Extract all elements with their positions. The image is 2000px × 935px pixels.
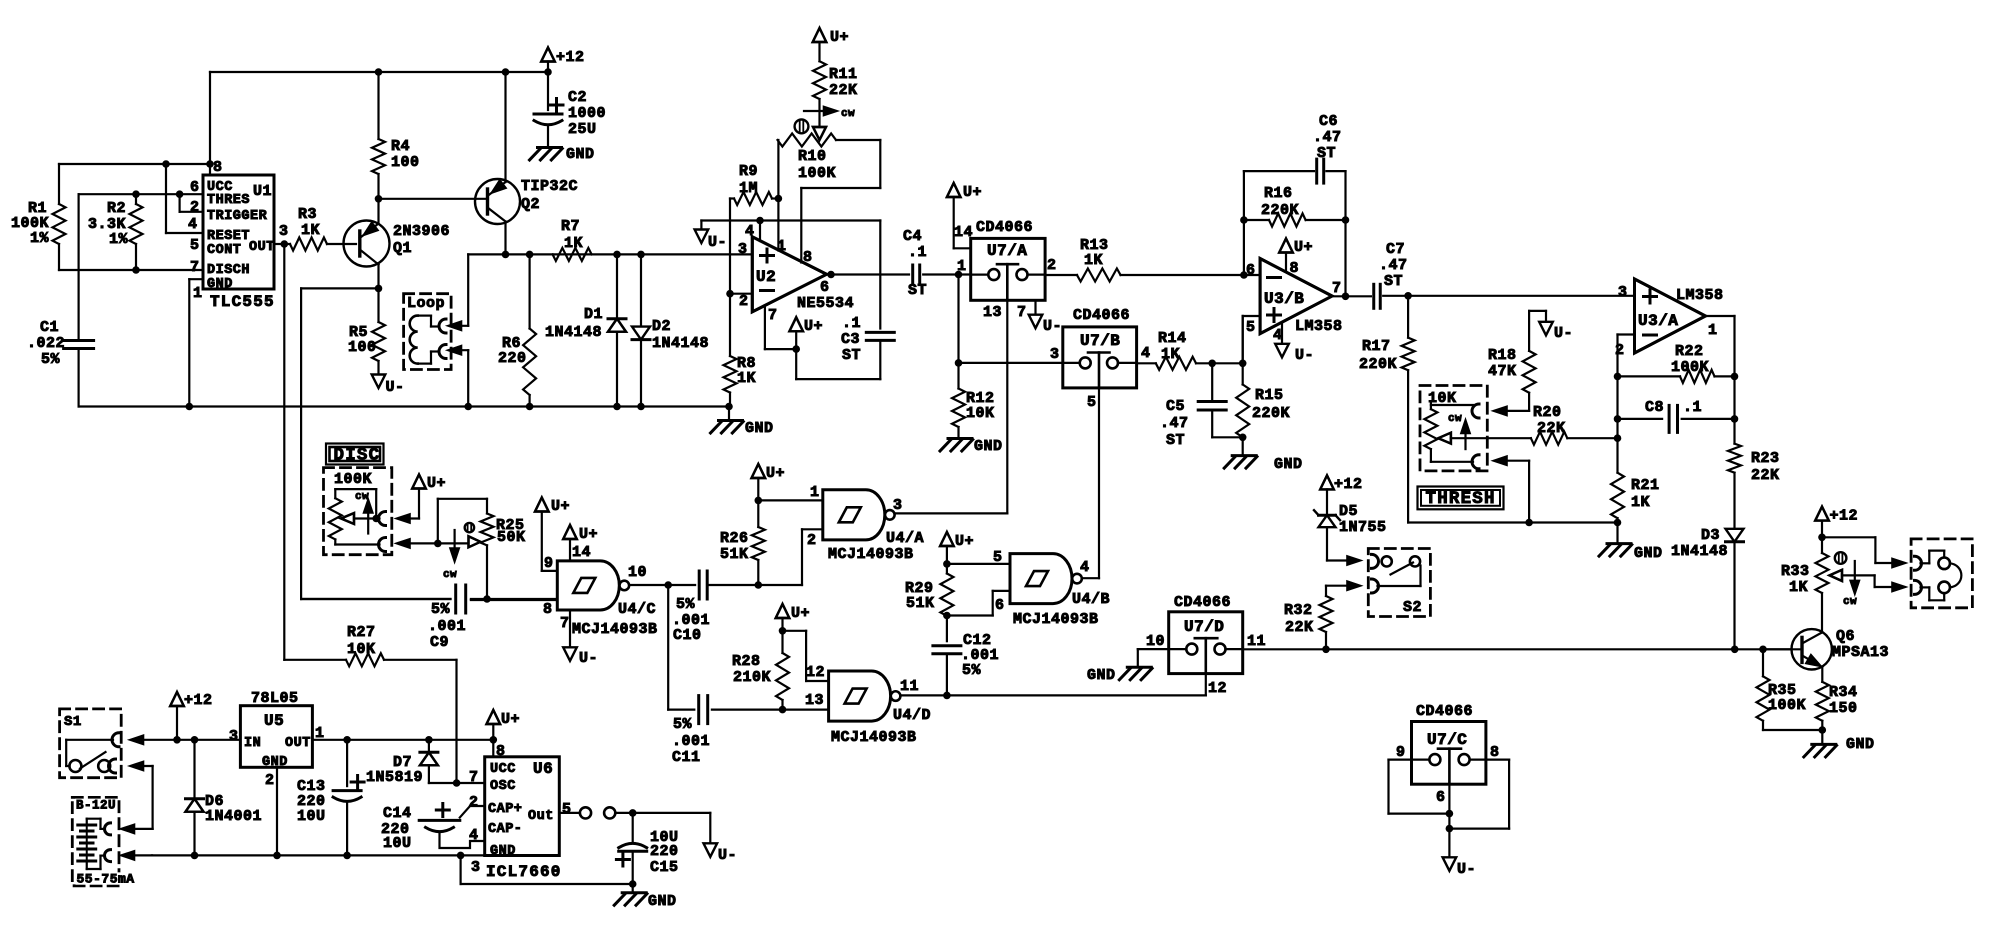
- svg-text:5%: 5%: [431, 601, 451, 618]
- svg-text:5: 5: [1246, 319, 1256, 336]
- svg-text:.47: .47: [1313, 129, 1342, 146]
- svg-text:51K: 51K: [906, 595, 935, 612]
- svg-text:2: 2: [739, 293, 749, 310]
- svg-text:+12: +12: [1334, 476, 1363, 493]
- svg-text:R23: R23: [1751, 450, 1780, 467]
- svg-text:cw: cw: [1843, 596, 1857, 608]
- svg-text:R7: R7: [561, 218, 580, 235]
- svg-text:13: 13: [805, 692, 824, 709]
- svg-text:3: 3: [279, 223, 289, 240]
- svg-text:8: 8: [213, 159, 223, 176]
- svg-text:4: 4: [1080, 559, 1090, 576]
- svg-text:U5: U5: [264, 712, 284, 730]
- svg-text:22K: 22K: [1751, 467, 1780, 484]
- svg-text:5%: 5%: [962, 662, 982, 679]
- svg-text:R32: R32: [1284, 602, 1313, 619]
- svg-text:U-: U-: [708, 234, 727, 251]
- svg-text:MPSA13: MPSA13: [1832, 644, 1889, 661]
- svg-text:U4/A: U4/A: [886, 530, 924, 547]
- svg-text:100K: 100K: [1768, 697, 1806, 714]
- svg-text:OSC: OSC: [490, 779, 516, 794]
- svg-text:U+: U+: [501, 711, 520, 728]
- svg-text:+12: +12: [184, 692, 213, 709]
- svg-text:ST: ST: [1317, 145, 1336, 162]
- svg-text:9: 9: [1396, 744, 1406, 761]
- svg-text:2: 2: [265, 772, 275, 789]
- svg-text:GND: GND: [1846, 736, 1875, 753]
- svg-text:220K: 220K: [1261, 202, 1299, 219]
- svg-text:U2: U2: [756, 268, 776, 286]
- svg-text:C3: C3: [841, 331, 860, 348]
- svg-text:U1: U1: [253, 183, 272, 200]
- svg-text:C5: C5: [1166, 398, 1185, 415]
- svg-text:+12: +12: [556, 49, 585, 66]
- svg-text:U4/D: U4/D: [893, 707, 931, 724]
- svg-text:25U: 25U: [568, 121, 597, 138]
- svg-text:U3/A: U3/A: [1638, 312, 1678, 330]
- svg-text:Q1: Q1: [393, 240, 412, 257]
- svg-text:100K: 100K: [1671, 359, 1709, 376]
- svg-text:U+: U+: [955, 533, 974, 550]
- svg-text:U+: U+: [766, 465, 785, 482]
- svg-text:THRESH: THRESH: [1426, 489, 1496, 509]
- svg-text:Q6: Q6: [1836, 628, 1855, 645]
- svg-text:R21: R21: [1631, 477, 1660, 494]
- svg-text:GND: GND: [1634, 545, 1663, 562]
- svg-text:.1: .1: [908, 244, 927, 261]
- svg-text:U6: U6: [533, 760, 553, 778]
- svg-text:D5: D5: [1339, 503, 1358, 520]
- svg-text:U+: U+: [830, 29, 849, 46]
- svg-text:U-: U-: [579, 650, 598, 667]
- svg-text:C2: C2: [568, 89, 587, 106]
- svg-text:TLC555: TLC555: [210, 293, 275, 311]
- svg-text:1: 1: [957, 258, 967, 275]
- svg-text:GND: GND: [1274, 456, 1303, 473]
- svg-text:220K: 220K: [1252, 405, 1290, 422]
- svg-text:2: 2: [1047, 257, 1057, 274]
- svg-text:C9: C9: [430, 634, 449, 651]
- svg-text:ST: ST: [842, 347, 861, 364]
- svg-text:1N4001: 1N4001: [205, 808, 262, 825]
- svg-text:11: 11: [900, 678, 919, 695]
- svg-text:THRES: THRES: [207, 193, 250, 208]
- svg-text:C15: C15: [650, 859, 679, 876]
- svg-text:C14: C14: [383, 805, 412, 822]
- svg-text:MCJ14093B: MCJ14093B: [828, 546, 914, 563]
- svg-text:78L05: 78L05: [251, 690, 299, 707]
- svg-text:MCJ14093B: MCJ14093B: [572, 621, 658, 638]
- svg-text:150: 150: [1829, 700, 1858, 717]
- svg-text:U-: U-: [1043, 318, 1062, 335]
- svg-text:3: 3: [471, 859, 481, 876]
- svg-text:R11: R11: [829, 66, 858, 83]
- svg-text:LM358: LM358: [1676, 287, 1724, 304]
- svg-text:U-: U-: [1554, 325, 1573, 342]
- svg-text:5%: 5%: [676, 596, 696, 613]
- svg-text:22K: 22K: [1537, 420, 1566, 437]
- svg-text:C11: C11: [672, 749, 701, 766]
- svg-text:R10: R10: [798, 148, 827, 165]
- svg-text:R28: R28: [732, 653, 761, 670]
- svg-text:1N4148: 1N4148: [545, 324, 602, 341]
- svg-text:S2: S2: [1403, 599, 1422, 616]
- svg-text:ST: ST: [1384, 273, 1403, 290]
- svg-text:4: 4: [1141, 345, 1151, 362]
- svg-text:R34: R34: [1829, 684, 1858, 701]
- svg-text:.001: .001: [672, 733, 710, 750]
- svg-text:DISC: DISC: [334, 445, 381, 465]
- svg-text:22K: 22K: [829, 82, 858, 99]
- svg-text:ST: ST: [1166, 432, 1185, 449]
- svg-text:7: 7: [560, 615, 570, 632]
- svg-text:5: 5: [190, 237, 200, 254]
- svg-text:U4/C: U4/C: [618, 601, 656, 618]
- svg-text:7: 7: [469, 769, 479, 786]
- svg-text:cw: cw: [443, 569, 457, 581]
- svg-text:47K: 47K: [1488, 363, 1517, 380]
- svg-text:8: 8: [543, 601, 553, 618]
- svg-text:2N3906: 2N3906: [393, 223, 450, 240]
- svg-text:Loop: Loop: [407, 295, 445, 312]
- svg-text:C6: C6: [1319, 113, 1338, 130]
- svg-text:U-: U-: [1295, 347, 1314, 364]
- svg-text:100K: 100K: [798, 165, 836, 182]
- svg-text:U7/B: U7/B: [1080, 332, 1120, 350]
- svg-text:14: 14: [572, 544, 591, 561]
- svg-text:C10: C10: [673, 627, 702, 644]
- svg-text:R26: R26: [720, 530, 749, 547]
- svg-text:U7/D: U7/D: [1184, 618, 1224, 636]
- svg-text:cw: cw: [355, 491, 369, 503]
- svg-text:R14: R14: [1158, 330, 1187, 347]
- svg-text:1%: 1%: [109, 231, 129, 248]
- svg-text:C4: C4: [903, 228, 922, 245]
- svg-text:5%: 5%: [41, 351, 61, 368]
- svg-text:1K: 1K: [1631, 494, 1650, 511]
- svg-text:1N4148: 1N4148: [1671, 543, 1728, 560]
- svg-text:R3: R3: [298, 206, 317, 223]
- svg-text:1N5819: 1N5819: [366, 769, 423, 786]
- svg-text:1N4148: 1N4148: [652, 335, 709, 352]
- svg-text:10U: 10U: [297, 808, 326, 825]
- svg-text:12: 12: [806, 664, 825, 681]
- svg-text:10: 10: [628, 564, 647, 581]
- svg-text:3: 3: [893, 497, 903, 514]
- svg-text:210K: 210K: [733, 669, 771, 686]
- svg-text:2: 2: [807, 532, 817, 549]
- svg-text:2: 2: [469, 794, 479, 811]
- svg-text:R20: R20: [1533, 404, 1562, 421]
- svg-text:50K: 50K: [497, 529, 526, 546]
- svg-text:U3/B: U3/B: [1264, 290, 1304, 308]
- svg-text:51K: 51K: [720, 546, 749, 563]
- svg-text:R2: R2: [107, 200, 126, 217]
- svg-text:U+: U+: [963, 184, 982, 201]
- svg-text:Out: Out: [528, 809, 554, 824]
- svg-text:3: 3: [1050, 346, 1060, 363]
- svg-text:10K: 10K: [347, 641, 376, 658]
- svg-text:GND: GND: [745, 420, 774, 437]
- svg-text:100: 100: [348, 339, 377, 356]
- svg-text:55-75mA: 55-75mA: [77, 872, 135, 887]
- svg-text:5: 5: [1087, 394, 1097, 411]
- svg-text:TRIGGER: TRIGGER: [207, 209, 268, 224]
- svg-text:U7/A: U7/A: [987, 242, 1027, 260]
- svg-text:U+: U+: [804, 318, 823, 335]
- svg-text:3: 3: [229, 728, 239, 745]
- svg-text:2: 2: [190, 199, 200, 216]
- svg-text:CONT: CONT: [207, 243, 241, 258]
- svg-text:7: 7: [768, 307, 778, 324]
- svg-text:RESET: RESET: [207, 229, 250, 244]
- svg-text:13: 13: [983, 304, 1002, 321]
- svg-text:8: 8: [1490, 744, 1500, 761]
- svg-text:6: 6: [820, 279, 830, 296]
- svg-text:UCC: UCC: [490, 762, 516, 777]
- svg-text:.47: .47: [1160, 415, 1189, 432]
- svg-text:1M: 1M: [739, 180, 758, 197]
- svg-text:B-12U: B-12U: [76, 799, 116, 813]
- svg-text:1K: 1K: [564, 235, 583, 252]
- svg-text:S1: S1: [64, 714, 82, 730]
- svg-text:1%: 1%: [30, 230, 50, 247]
- svg-text:U-: U-: [718, 847, 737, 864]
- svg-text:DISCH: DISCH: [207, 263, 250, 278]
- svg-text:3: 3: [738, 241, 748, 258]
- svg-text:5: 5: [993, 549, 1003, 566]
- svg-text:.1: .1: [1683, 399, 1702, 416]
- svg-text:LM358: LM358: [1295, 318, 1343, 335]
- svg-text:10: 10: [1146, 633, 1165, 650]
- svg-text:C1: C1: [40, 319, 59, 336]
- svg-text:MCJ14093B: MCJ14093B: [831, 729, 917, 746]
- svg-text:4: 4: [745, 223, 755, 240]
- svg-text:R22: R22: [1675, 343, 1704, 360]
- svg-text:D2: D2: [652, 318, 671, 335]
- svg-text:1N755: 1N755: [1339, 519, 1387, 536]
- svg-text:1: 1: [810, 484, 820, 501]
- svg-text:1K: 1K: [1084, 252, 1103, 269]
- svg-text:OUT: OUT: [285, 736, 311, 751]
- svg-text:22K: 22K: [1285, 619, 1314, 636]
- svg-text:U7/C: U7/C: [1427, 731, 1467, 749]
- svg-text:100: 100: [391, 154, 420, 171]
- svg-text:U+: U+: [579, 526, 598, 543]
- svg-text:9: 9: [544, 555, 554, 572]
- svg-text:+12: +12: [1830, 508, 1859, 525]
- svg-text:U-: U-: [386, 379, 405, 396]
- svg-text:cw: cw: [841, 108, 855, 120]
- svg-text:12: 12: [1208, 680, 1227, 697]
- svg-text:11: 11: [1247, 633, 1266, 650]
- svg-text:3: 3: [1618, 284, 1628, 301]
- svg-text:MCJ14093B: MCJ14093B: [1013, 611, 1099, 628]
- svg-text:OUT: OUT: [249, 240, 275, 255]
- svg-text:GND: GND: [490, 844, 516, 859]
- svg-text:6: 6: [995, 597, 1005, 614]
- svg-text:5%: 5%: [673, 716, 693, 733]
- svg-text:R9: R9: [739, 163, 758, 180]
- svg-text:8: 8: [1290, 260, 1300, 277]
- svg-text:CAP-: CAP-: [488, 822, 522, 837]
- svg-text:4: 4: [188, 216, 198, 233]
- svg-text:.001: .001: [428, 618, 466, 635]
- svg-text:NE5534: NE5534: [797, 295, 854, 312]
- svg-text:6: 6: [1436, 789, 1446, 806]
- svg-text:cw: cw: [1448, 413, 1462, 425]
- svg-text:GND: GND: [566, 146, 595, 163]
- svg-text:C8: C8: [1645, 399, 1664, 416]
- svg-text:220K: 220K: [1359, 356, 1397, 373]
- svg-text:8: 8: [803, 249, 813, 266]
- svg-text:1: 1: [193, 285, 203, 302]
- svg-text:IN: IN: [244, 736, 261, 751]
- svg-text:6: 6: [1246, 262, 1256, 279]
- svg-text:R17: R17: [1362, 338, 1391, 355]
- svg-text:CAP+: CAP+: [488, 802, 522, 817]
- svg-text:10K: 10K: [966, 405, 995, 422]
- svg-text:7: 7: [190, 259, 200, 276]
- svg-text:100K: 100K: [334, 471, 372, 488]
- svg-text:TIP32C: TIP32C: [521, 178, 578, 195]
- svg-text:1K: 1K: [1161, 346, 1180, 363]
- svg-text:R16: R16: [1264, 185, 1293, 202]
- svg-text:GND: GND: [974, 438, 1003, 455]
- svg-text:CD4066: CD4066: [1073, 307, 1130, 324]
- svg-text:U-: U-: [1457, 861, 1476, 878]
- svg-text:.1: .1: [842, 315, 861, 332]
- svg-text:R33: R33: [1781, 563, 1810, 580]
- svg-text:R18: R18: [1488, 347, 1517, 364]
- svg-text:.47: .47: [1379, 257, 1408, 274]
- svg-text:1K: 1K: [1789, 579, 1808, 596]
- svg-text:10U: 10U: [383, 835, 412, 852]
- svg-text:U4/B: U4/B: [1072, 591, 1110, 608]
- svg-text:CD4066: CD4066: [1416, 703, 1473, 720]
- svg-text:1: 1: [1708, 322, 1718, 339]
- svg-text:Q2: Q2: [521, 196, 540, 213]
- svg-text:1K: 1K: [737, 370, 756, 387]
- svg-text:D1: D1: [584, 306, 603, 323]
- svg-text:.022: .022: [27, 335, 65, 352]
- svg-text:R4: R4: [391, 138, 410, 155]
- svg-text:C7: C7: [1386, 241, 1405, 258]
- svg-text:CD4066: CD4066: [1174, 594, 1231, 611]
- svg-text:220: 220: [498, 350, 527, 367]
- svg-text:U+: U+: [551, 498, 570, 515]
- svg-text:GND: GND: [262, 755, 288, 770]
- svg-text:14: 14: [954, 224, 973, 241]
- svg-text:U+: U+: [791, 605, 810, 622]
- svg-text:5: 5: [562, 801, 572, 818]
- svg-text:U+: U+: [427, 475, 446, 492]
- svg-text:D3: D3: [1701, 527, 1720, 544]
- svg-text:7: 7: [1017, 304, 1027, 321]
- svg-text:1000: 1000: [568, 105, 606, 122]
- svg-text:220: 220: [650, 843, 679, 860]
- svg-text:1K: 1K: [301, 222, 320, 239]
- svg-text:GND: GND: [1087, 667, 1116, 684]
- svg-text:GND: GND: [207, 277, 233, 292]
- svg-text:ST: ST: [908, 282, 927, 299]
- svg-text:GND: GND: [648, 893, 677, 910]
- svg-text:ICL7660: ICL7660: [486, 863, 562, 881]
- svg-text:7: 7: [1332, 280, 1342, 297]
- svg-text:R27: R27: [347, 624, 376, 641]
- svg-text:R15: R15: [1255, 387, 1284, 404]
- svg-text:U+: U+: [1294, 239, 1313, 256]
- svg-text:CD4066: CD4066: [976, 219, 1033, 236]
